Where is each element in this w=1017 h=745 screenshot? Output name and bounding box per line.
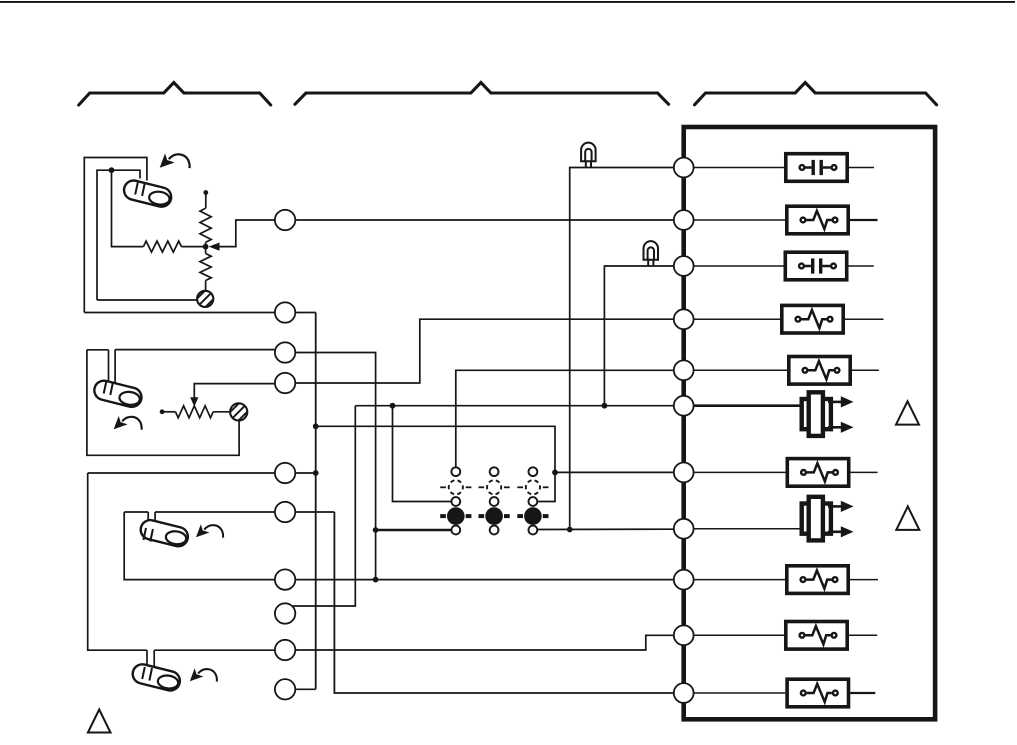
hand knob icon 3 (139, 518, 190, 548)
terminal L10 right stub (296, 688, 316, 690)
assembly3 wire drop 1 (146, 650, 148, 667)
power wire top (570, 168, 674, 530)
potentiometer 2 element (176, 406, 214, 418)
terminal circle L3 (275, 342, 295, 362)
terminal circle L6 (275, 502, 295, 522)
brace subbase section (295, 83, 669, 105)
brace system equipment section (695, 83, 937, 105)
heat anticipator resistor (143, 241, 181, 252)
terminal circle L4 (275, 373, 295, 393)
wire to adjust screw 1 (97, 299, 197, 301)
relay coil load R9 (694, 566, 878, 594)
wire to terminal L2 (84, 312, 274, 314)
wire outer loop top (84, 158, 147, 313)
assembly2 top wire right (115, 349, 275, 351)
common net wire to R6 (355, 405, 673, 407)
wire resistor to wiper junction (181, 246, 205, 248)
terminal circle L1 (275, 210, 295, 230)
pot 1 top terminal dot (203, 190, 208, 195)
loop L6 left segment (124, 511, 148, 513)
wire pot1 top (205, 193, 207, 209)
relay coil load R10 (694, 622, 877, 650)
hand knob icon 4 (131, 662, 182, 692)
rotation arrow 1 (160, 153, 190, 168)
common net 2 wire (316, 426, 555, 501)
indicator bulb 1 (581, 143, 596, 168)
cabinet terminal R4 (674, 309, 694, 329)
assembly3 pill3 drop 2 (154, 512, 156, 530)
rotation arrow 3 (196, 524, 223, 537)
relay coil load R7 (694, 459, 878, 487)
relay coil load R11 (694, 679, 875, 707)
cabinet terminal R7 (674, 463, 694, 483)
pilot lamp unit 2 (479, 467, 510, 534)
junction common net lamp1 (390, 403, 396, 409)
warning triangle 3 (88, 710, 111, 733)
junction dot A1 (109, 167, 115, 173)
pot 2 left terminal dot (160, 409, 165, 414)
adjustment screw 1 (193, 287, 218, 312)
assembly2 wire drop 1 (108, 350, 110, 382)
pilot lamp unit 3 (517, 467, 548, 534)
wire to terminal L5 (88, 472, 275, 474)
assembly3 wire drop 2 (153, 650, 155, 669)
bus wire 2 (334, 512, 673, 693)
brace thermostat section (79, 83, 271, 106)
indicator bulb 2 (644, 241, 659, 266)
contactor contact load R1 (694, 154, 874, 182)
terminal circle L2 (275, 302, 295, 322)
cabinet terminal R3 (674, 256, 694, 276)
wire L4 to R4 (296, 319, 673, 383)
rotation arrow 4 (190, 668, 217, 681)
junction L3 riser lamp wire (373, 527, 379, 533)
wire inner top (97, 170, 140, 300)
potentiometer 1 lower element (200, 254, 211, 281)
contactor contact load R3 (694, 252, 874, 280)
bus1 junction at common net (313, 423, 319, 429)
junction common net R3 riser (602, 403, 608, 409)
wire lamp1 top to R5 (456, 370, 673, 466)
assembly3 pill3 drop 1 (147, 512, 149, 528)
pot1 mid link (205, 242, 207, 253)
assembly2 loop (87, 350, 239, 456)
terminal L5 right stub (296, 472, 316, 474)
motorized valve 1 (694, 392, 853, 436)
bus1 junction at L5 (313, 470, 319, 476)
terminal L2 right stub (296, 312, 316, 314)
terminal circle L7 (275, 569, 295, 589)
bus wire 1 (315, 313, 317, 690)
adjustment screw 2 (226, 399, 252, 425)
wiper junction dot (203, 244, 209, 250)
terminal circle L9 (275, 640, 295, 660)
wire L8 riser (293, 406, 355, 606)
junction net2 at R7 branch (552, 470, 558, 476)
assembly3 bottom wire right (154, 649, 274, 651)
cabinet terminal R2 (674, 210, 694, 230)
cabinet terminal R11 (674, 683, 694, 703)
wire R3 riser (604, 266, 673, 406)
cabinet terminal R1 (674, 158, 694, 178)
wire L1 to R2 (296, 219, 673, 221)
wire L3 riser (296, 353, 376, 580)
wiper arrow 1 (209, 220, 275, 251)
loop left rail (124, 512, 274, 580)
equipment cabinet box (684, 127, 935, 719)
wire pot2 left (162, 411, 175, 413)
wire L7 to R9 (296, 579, 673, 581)
hand knob icon 1 (122, 178, 173, 208)
cabinet terminal R6 (674, 396, 694, 416)
wire pot2 to screw 2 (213, 411, 230, 413)
relay coil load R5 (694, 357, 879, 385)
terminal circle L8 (275, 603, 295, 623)
assembly2 top wire left (87, 349, 109, 351)
relay coil load R4 (694, 305, 883, 333)
lamp1 bottom wire (376, 529, 451, 532)
wire pot1 to screw (205, 281, 207, 292)
lamp1 mid wire (393, 406, 452, 502)
rotation arrow 2 (114, 416, 142, 430)
wire net2 to R7 (555, 471, 673, 473)
warning triangle 2 (896, 506, 919, 530)
warning triangle 1 (896, 401, 919, 424)
junction power wire at lamp bottom (567, 527, 573, 533)
assembly2 wire drop 2 (114, 350, 116, 383)
page top rule (0, 1, 1015, 3)
lamp3 bottom wire to R8 (538, 528, 673, 530)
potentiometer 1 upper element (200, 208, 211, 242)
wire to anticipator resistor (112, 170, 144, 246)
wiper arrow 2 (190, 384, 274, 407)
assembly3 left rail (88, 473, 147, 650)
terminal circle L5 (275, 463, 295, 483)
cabinet terminal R5 (674, 360, 694, 380)
terminal L6 right stub (296, 511, 335, 513)
wire L9 to R10 (296, 635, 673, 650)
motorized valve 2 (694, 497, 853, 541)
pilot lamp unit 1 (440, 467, 471, 534)
loop L6 to L7 (155, 511, 274, 513)
hand knob icon 2 (92, 379, 143, 409)
cabinet terminal R10 (674, 625, 694, 645)
terminal circle L10 (275, 679, 295, 699)
heating element load R2 (694, 206, 877, 234)
cabinet terminal R8 (674, 519, 694, 539)
cabinet terminal R9 (674, 570, 694, 590)
junction L3 riser at L7 wire (373, 577, 379, 583)
